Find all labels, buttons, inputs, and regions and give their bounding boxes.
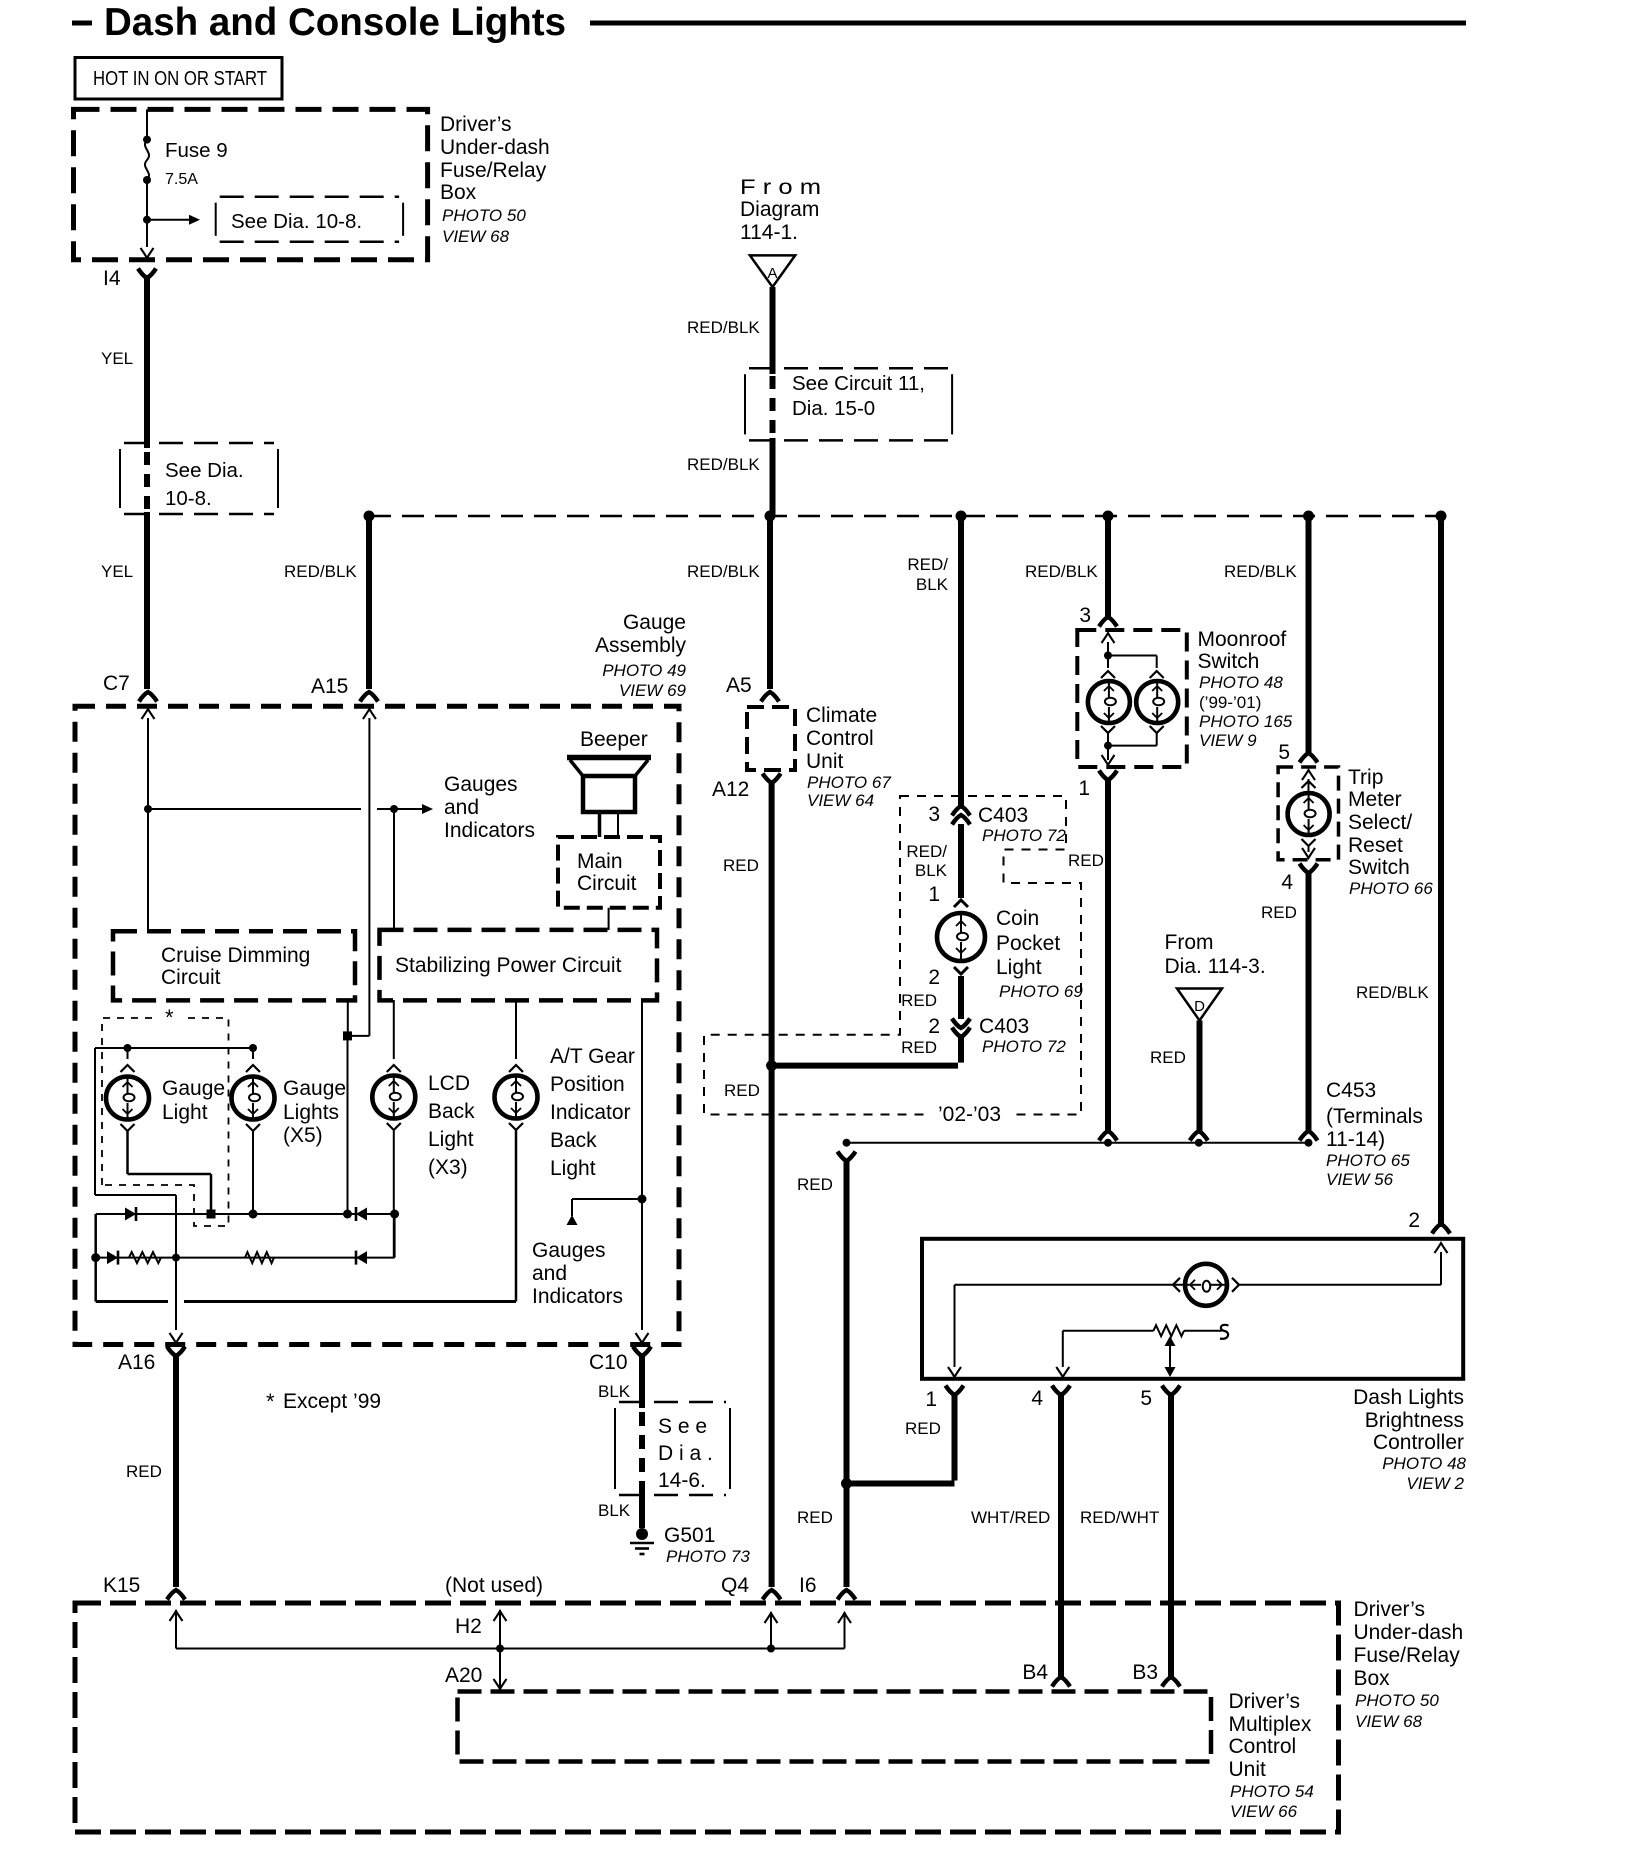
Gauge Assembly box, dashed xyxy=(75,706,679,1344)
See Dia. 14-6. reference box xyxy=(614,1408,616,1489)
lamp moonroof right xyxy=(1136,681,1178,723)
wire row2 right up to row1 xyxy=(394,1214,396,1258)
svg-text:VIEW 9: VIEW 9 xyxy=(1199,731,1257,750)
wire tap to gauges arrow xyxy=(572,1198,642,1200)
svg-text:RED: RED xyxy=(126,1462,162,1481)
svg-text:Brightness: Brightness xyxy=(1365,1409,1464,1432)
wire tap to gauges arrow xyxy=(148,808,361,810)
svg-text:(Terminals: (Terminals xyxy=(1326,1105,1423,1128)
wire YEL (to C7) xyxy=(144,512,150,689)
svg-text:RED/BLK: RED/BLK xyxy=(687,318,760,337)
svg-text:Gauge: Gauge xyxy=(162,1077,225,1100)
svg-text:14-6.: 14-6. xyxy=(658,1469,706,1492)
wire stabilizing to LCD back light xyxy=(393,1000,395,1059)
svg-text:*: * xyxy=(165,1005,174,1030)
pin C7 xyxy=(139,692,157,702)
svg-text:A/T Gear: A/T Gear xyxy=(550,1045,635,1068)
pin 1 controller xyxy=(946,1386,964,1396)
wire tap down to stabilizing circuit xyxy=(393,809,395,930)
svg-text:YEL: YEL xyxy=(101,349,133,368)
svg-text:Gauge: Gauge xyxy=(283,1077,346,1100)
diode D1 xyxy=(125,1208,136,1221)
wire H2/A20 link xyxy=(499,1610,501,1689)
wire lamp top rail xyxy=(95,1047,253,1049)
junction row2 left xyxy=(91,1253,100,1262)
svg-text:Dia. 15-0: Dia. 15-0 xyxy=(792,397,875,420)
svg-text:Switch: Switch xyxy=(1198,650,1260,673)
svg-text:PHOTO 54: PHOTO 54 xyxy=(1230,1782,1314,1801)
wire RED/BLK to bus xyxy=(770,438,776,516)
pin A5 xyxy=(761,692,779,702)
svg-text:Back: Back xyxy=(550,1129,597,1152)
wire BLK down xyxy=(639,1356,645,1408)
wire gauge lights down xyxy=(252,1131,254,1214)
svg-text:VIEW 68: VIEW 68 xyxy=(1355,1712,1423,1731)
svg-text:PHOTO 65: PHOTO 65 xyxy=(1326,1151,1410,1170)
enclosure '02-'03 dashed region xyxy=(704,796,1081,1115)
wire dashed through box xyxy=(639,1412,645,1492)
wire RED down xyxy=(958,1037,964,1063)
svg-text:PHOTO 48: PHOTO 48 xyxy=(1382,1454,1466,1473)
wire main circuit to stabilizing xyxy=(608,908,610,930)
junction lamp1 bottom xyxy=(207,1210,216,1219)
svg-text:Under-dash: Under-dash xyxy=(1354,1621,1464,1644)
junction coin-pocket feed xyxy=(766,1060,777,1071)
wire dashed through box xyxy=(144,452,150,512)
svg-text:PHOTO 66: PHOTO 66 xyxy=(1349,879,1433,898)
svg-text:See Dia.: See Dia. xyxy=(165,459,244,482)
svg-text:Back: Back xyxy=(428,1100,475,1123)
connector triangle A xyxy=(750,255,795,287)
lamp coin pocket light xyxy=(937,913,985,961)
wire to gauges+indicators arrow xyxy=(394,808,424,810)
svg-text:RED/: RED/ xyxy=(907,555,948,574)
svg-text:1: 1 xyxy=(928,883,940,906)
wire LCD lamp down to diode rows xyxy=(393,1130,395,1258)
svg-text:YEL: YEL xyxy=(101,562,133,581)
svg-text:Diagram: Diagram xyxy=(740,198,819,221)
svg-text:Gauge: Gauge xyxy=(623,611,686,634)
wire RED/BLK to moonroof switch xyxy=(1105,516,1111,617)
svg-text:(Not used): (Not used) xyxy=(445,1574,543,1597)
pin 5 trip meter xyxy=(1300,753,1318,763)
pin 4 controller xyxy=(1052,1386,1070,1396)
node C7-gauges tap xyxy=(144,805,152,813)
svg-text:A15: A15 xyxy=(311,675,348,698)
svg-text:Dash and Console Lights: Dash and Console Lights xyxy=(104,1,566,44)
svg-text:(X3): (X3) xyxy=(428,1156,468,1179)
svg-text:Lights: Lights xyxy=(283,1101,339,1124)
wire to internal lamp xyxy=(1238,1284,1441,1286)
wire RED/BLK to C403 xyxy=(958,516,964,806)
bus node trip xyxy=(1303,511,1314,522)
svg-text:LCD: LCD xyxy=(428,1072,470,1095)
svg-text:’02-’03: ’02-’03 xyxy=(938,1103,1001,1126)
bus node moonroof xyxy=(1103,511,1114,522)
wire RED moonroof to C453 xyxy=(1105,780,1111,1131)
pin C10 xyxy=(633,1347,651,1357)
wire RED to A12 junction xyxy=(772,1063,958,1069)
svg-text:I6: I6 xyxy=(799,1574,817,1597)
svg-text:PHOTO 48: PHOTO 48 xyxy=(1199,673,1283,692)
svg-text:(X5): (X5) xyxy=(283,1124,323,1147)
dashed power bus xyxy=(369,515,1441,518)
svg-text:Control: Control xyxy=(1229,1735,1297,1758)
svg-text:BLK: BLK xyxy=(915,861,948,880)
wiper terminal 5 xyxy=(1169,1343,1171,1370)
node Q4 xyxy=(767,1645,775,1653)
pin A16 xyxy=(167,1347,185,1357)
lamp gauge lights (X5) xyxy=(232,1077,275,1120)
lamp LCD back light (X3) xyxy=(372,1076,415,1119)
svg-text:4: 4 xyxy=(1281,871,1293,894)
svg-text:Circuit: Circuit xyxy=(577,872,637,895)
svg-text:Position: Position xyxy=(550,1073,625,1096)
wire to I4 xyxy=(146,220,148,247)
svg-text:2: 2 xyxy=(928,966,940,989)
Moonroof Switch box, dashed xyxy=(1077,630,1187,767)
wire K15 stub xyxy=(175,1610,177,1649)
Trip Meter Select/Reset Switch box, dashed xyxy=(1278,767,1338,860)
svg-text:Under-dash: Under-dash xyxy=(440,136,550,159)
See Dia. 10-8. reference box 2 xyxy=(119,449,121,508)
svg-text:Fuse/Relay: Fuse/Relay xyxy=(1354,1644,1461,1667)
asterisk (Except 99) box, dashed xyxy=(102,1018,229,1226)
wire rail left down xyxy=(94,1048,96,1195)
svg-text:C10: C10 xyxy=(589,1351,628,1374)
svg-text:7.5A: 7.5A xyxy=(165,171,198,188)
wire I6 stub xyxy=(844,1612,846,1649)
svg-text:Main: Main xyxy=(577,850,623,873)
svg-text:Indicators: Indicators xyxy=(532,1285,623,1308)
svg-text:Trip: Trip xyxy=(1348,766,1383,789)
svg-text:Cruise Dimming: Cruise Dimming xyxy=(161,944,310,967)
svg-text:RED: RED xyxy=(1068,851,1104,870)
pin A15 xyxy=(360,692,378,702)
node moonroof split xyxy=(1104,652,1112,660)
svg-text:RED/: RED/ xyxy=(906,842,947,861)
svg-text:*: * xyxy=(266,1389,275,1414)
pin 3 moonroof xyxy=(1099,617,1117,627)
svg-text:B3: B3 xyxy=(1132,1661,1158,1684)
svg-text:RED/BLK: RED/BLK xyxy=(1356,983,1429,1002)
pin 2 controller xyxy=(1432,1224,1450,1234)
svg-text:VIEW 2: VIEW 2 xyxy=(1406,1474,1464,1493)
svg-text:Fuse/Relay: Fuse/Relay xyxy=(440,159,547,182)
wire BLK to ground xyxy=(639,1492,645,1528)
svg-text:See Dia. 10-8.: See Dia. 10-8. xyxy=(231,210,362,233)
svg-text:PHOTO 50: PHOTO 50 xyxy=(442,206,526,225)
wire into fuse xyxy=(146,109,148,139)
svg-text:RED: RED xyxy=(724,1081,760,1100)
svg-text:A16: A16 xyxy=(118,1351,155,1374)
wire RED C453 to I6 xyxy=(844,1161,850,1587)
wire bottom rail left xyxy=(96,1300,168,1303)
svg-text:Dash Lights: Dash Lights xyxy=(1353,1386,1464,1409)
wire RED/BLK from triangle A xyxy=(770,287,776,374)
pin Q4 xyxy=(763,1590,781,1600)
svg-text:A: A xyxy=(767,265,777,282)
svg-text:BLK: BLK xyxy=(598,1382,631,1401)
connector triangle D xyxy=(1177,989,1222,1021)
wire stabilizing to C10 xyxy=(641,1000,643,1330)
junction lamp2 bottom xyxy=(249,1210,258,1219)
Main Circuit box, dashed xyxy=(558,837,660,908)
resistor R2 xyxy=(245,1252,274,1263)
svg-text:RED: RED xyxy=(797,1175,833,1194)
svg-text:A5: A5 xyxy=(726,674,752,697)
svg-text:Driver’s: Driver’s xyxy=(1354,1598,1426,1621)
bus node coin xyxy=(956,511,967,522)
svg-text:5: 5 xyxy=(1140,1387,1152,1410)
svg-text:RED/BLK: RED/BLK xyxy=(1224,562,1297,581)
wire RED trip meter to C453 xyxy=(1306,873,1312,1131)
svg-text:From: From xyxy=(1165,931,1214,954)
wire YEL (I4 to See Dia 10-8) xyxy=(144,278,150,448)
wire lamp to terminal 1 xyxy=(955,1284,1187,1286)
svg-text:VIEW 64: VIEW 64 xyxy=(807,791,874,810)
potentiometer xyxy=(1063,1330,1154,1332)
Driver's Multiplex Control Unit box, dashed xyxy=(458,1692,1212,1762)
connector ends at C453 xyxy=(1099,1131,1117,1141)
node gauges arrow tap xyxy=(390,805,398,813)
Dash Lights Brightness Controller box xyxy=(922,1239,1463,1379)
node moonroof join xyxy=(1104,742,1112,750)
svg-text:PHOTO 165: PHOTO 165 xyxy=(1199,712,1293,731)
wire to gauge lights x5 xyxy=(252,1048,254,1059)
beeper lead 1 xyxy=(598,812,602,837)
pin 1 moonroof xyxy=(1099,771,1117,781)
wire fuse box internal bus xyxy=(176,1648,845,1650)
wire RED/BLK to A5 xyxy=(767,516,773,689)
wire pot to terminal 4 xyxy=(1062,1331,1064,1367)
wire row1 left down xyxy=(94,1214,97,1302)
svg-text:RED: RED xyxy=(901,991,937,1010)
wire RED from triangle D xyxy=(1197,1021,1203,1132)
svg-text:Moonroof: Moonroof xyxy=(1198,628,1287,651)
wire RED to I6 junction xyxy=(849,1481,955,1487)
svg-text:BLK: BLK xyxy=(916,575,949,594)
svg-text:C403: C403 xyxy=(978,804,1028,827)
lamp gauge light xyxy=(106,1077,149,1120)
svg-text:PHOTO 67: PHOTO 67 xyxy=(807,773,891,792)
Driver's under-dash fuse/relay box (bottom), dashed xyxy=(75,1603,1339,1832)
wire cruise dimming output xyxy=(347,1000,349,1036)
svg-text:RED/WHT: RED/WHT xyxy=(1080,1508,1159,1527)
junction A15 branch xyxy=(343,1210,352,1219)
bus node A15 xyxy=(364,511,375,522)
svg-text:Gauges: Gauges xyxy=(532,1239,606,1262)
svg-text:G501: G501 xyxy=(664,1524,715,1547)
connector C403 pin 3 xyxy=(952,806,970,816)
svg-text:VIEW 68: VIEW 68 xyxy=(442,227,510,246)
Cruise Dimming Circuit box, dashed xyxy=(113,931,355,1000)
svg-text:D: D xyxy=(1194,998,1205,1015)
bus node controller xyxy=(1436,511,1447,522)
pin B4 xyxy=(1052,1677,1070,1687)
wire C7 internal to cruise dimming xyxy=(147,718,149,931)
svg-text:S e e: S e e xyxy=(658,1415,707,1438)
svg-text:Reset: Reset xyxy=(1348,834,1403,857)
wire RED/BLK C403 to coin lamp xyxy=(958,824,964,898)
svg-text:Light: Light xyxy=(550,1157,596,1180)
ground G501 xyxy=(636,1528,648,1540)
wire RED/BLK to trip meter switch xyxy=(1306,516,1312,753)
svg-text:PHOTO 73: PHOTO 73 xyxy=(666,1547,750,1566)
svg-text:Select/: Select/ xyxy=(1348,811,1412,834)
wire rail jog xyxy=(95,1194,176,1196)
wire fuse to branch xyxy=(146,180,148,220)
svg-text:WHT/RED: WHT/RED xyxy=(971,1508,1050,1527)
svg-text:1: 1 xyxy=(925,1388,937,1411)
svg-text:Climate: Climate xyxy=(806,704,877,727)
pin 4 trip meter xyxy=(1300,864,1318,874)
svg-text:Light: Light xyxy=(428,1128,474,1151)
wire stabilizing to A/T lamp xyxy=(515,1000,517,1059)
svg-text:Meter: Meter xyxy=(1348,788,1402,811)
pin I4 xyxy=(138,269,156,279)
svg-text:Driver’s: Driver’s xyxy=(440,113,512,136)
wire diode row 2 xyxy=(96,1257,395,1259)
pin 5 controller xyxy=(1162,1386,1180,1396)
svg-text:Multiplex: Multiplex xyxy=(1229,1713,1312,1736)
svg-text:I4: I4 xyxy=(103,267,121,290)
HOT IN ON OR START box xyxy=(75,58,282,100)
svg-text:HOT IN ON OR START: HOT IN ON OR START xyxy=(93,68,267,90)
svg-text:RED: RED xyxy=(1261,903,1297,922)
svg-text:VIEW 56: VIEW 56 xyxy=(1326,1170,1394,1189)
svg-text:5: 5 xyxy=(1278,741,1290,764)
svg-text:PHOTO 69: PHOTO 69 xyxy=(999,982,1083,1001)
svg-text:Box: Box xyxy=(440,181,477,204)
svg-text:PHOTO 49: PHOTO 49 xyxy=(602,661,686,680)
resistor R1 xyxy=(129,1252,161,1263)
wire diode row 1 xyxy=(96,1213,395,1215)
svg-text:PHOTO 72: PHOTO 72 xyxy=(982,1037,1066,1056)
svg-text:Control: Control xyxy=(806,727,874,750)
svg-text:Switch: Switch xyxy=(1348,856,1410,879)
wire WHT/RED to B4 xyxy=(1058,1395,1064,1677)
svg-text:H2: H2 xyxy=(455,1615,482,1638)
connector C403 pin 2 xyxy=(952,1019,970,1029)
svg-text:C403: C403 xyxy=(979,1015,1029,1038)
pin K15 xyxy=(167,1590,185,1600)
svg-text:Gauges: Gauges xyxy=(444,773,518,796)
wire A15 internal down xyxy=(368,718,370,1036)
svg-text:F r o m: F r o m xyxy=(740,176,821,199)
wire RED terminal1 down xyxy=(952,1395,958,1481)
svg-text:C7: C7 xyxy=(103,672,130,695)
wire A15 jog left xyxy=(348,1035,370,1037)
svg-text:RED: RED xyxy=(797,1508,833,1527)
wire Q4 stub xyxy=(770,1612,772,1649)
junction cruise/A15 xyxy=(343,1031,352,1040)
svg-text:See Circuit 11,: See Circuit 11, xyxy=(792,372,925,395)
svg-text:K15: K15 xyxy=(103,1574,140,1597)
svg-text:Pocket: Pocket xyxy=(996,932,1060,955)
fuse top node xyxy=(143,136,151,144)
diode D4 xyxy=(356,1251,367,1264)
wire junction down to diode row xyxy=(347,1036,349,1214)
svg-text:Indicator: Indicator xyxy=(550,1101,631,1124)
svg-text:10-8.: 10-8. xyxy=(165,487,212,510)
svg-text:4: 4 xyxy=(1031,1387,1043,1410)
branch wire to See Dia 10-8 xyxy=(147,219,189,221)
pin C453 end / wire to I6 xyxy=(838,1152,856,1162)
node A16-row2 tap xyxy=(172,1254,180,1262)
svg-text:RED/BLK: RED/BLK xyxy=(687,562,760,581)
See Dia. 10-8. reference box xyxy=(215,203,217,236)
bus node A5 xyxy=(765,511,776,522)
lamp moonroof left xyxy=(1088,681,1130,723)
svg-text:3: 3 xyxy=(928,803,940,826)
svg-text:Driver’s: Driver’s xyxy=(1229,1690,1301,1713)
node gauges indicator tap xyxy=(638,1195,647,1204)
svg-text:Box: Box xyxy=(1354,1667,1391,1690)
Climate Control Unit box, dashed xyxy=(747,707,795,770)
wire RED coin lamp to C403 xyxy=(958,976,964,1019)
wire moonroof internal top xyxy=(1107,642,1109,668)
svg-text:RED: RED xyxy=(1150,1048,1186,1067)
svg-text:RED: RED xyxy=(905,1419,941,1438)
wire A/T lamp down to bottom rail xyxy=(515,1130,518,1302)
svg-text:Q4: Q4 xyxy=(721,1574,749,1597)
wire RED/BLK to brightness controller pin 2 xyxy=(1438,516,1444,1224)
svg-text:Light: Light xyxy=(162,1101,208,1124)
svg-text:RED/BLK: RED/BLK xyxy=(284,562,357,581)
node H2/A20 xyxy=(496,1645,504,1653)
wire RED/BLK to A15 xyxy=(366,516,372,689)
wire to gauge light xyxy=(127,1048,129,1059)
wire gauge light down xyxy=(126,1131,129,1174)
Stabilizing Power Circuit box, dashed xyxy=(380,930,658,1001)
pin B3 xyxy=(1162,1677,1180,1687)
svg-text:and: and xyxy=(532,1262,567,1285)
svg-text:1: 1 xyxy=(1078,777,1090,800)
svg-text:D i a .: D i a . xyxy=(658,1442,713,1465)
fuse F9 7.5A xyxy=(145,140,149,180)
svg-text:Indicators: Indicators xyxy=(444,819,535,842)
svg-text:2: 2 xyxy=(928,1015,940,1038)
svg-text:Controller: Controller xyxy=(1373,1431,1464,1454)
svg-text:and: and xyxy=(444,796,479,819)
svg-text:Assembly: Assembly xyxy=(595,634,687,657)
diode D2 xyxy=(356,1208,367,1221)
lamp brightness controller internal xyxy=(1185,1264,1227,1306)
See Circuit 11 Dia 15-0 reference box xyxy=(744,374,746,434)
wire dashed through box xyxy=(770,376,776,438)
svg-text:Unit: Unit xyxy=(1229,1758,1267,1781)
svg-text:Fuse 9: Fuse 9 xyxy=(165,139,228,162)
pin A12 xyxy=(763,774,781,784)
svg-text:Except ’99: Except ’99 xyxy=(283,1390,381,1413)
wire bottom rail right xyxy=(184,1300,516,1303)
wire controller internal pin2 xyxy=(1440,1252,1442,1285)
svg-text:Dia. 114-3.: Dia. 114-3. xyxy=(1165,955,1266,978)
svg-text:C453: C453 xyxy=(1326,1079,1376,1102)
wire RED A12 to Q4 xyxy=(769,783,775,1587)
svg-text:RED/BLK: RED/BLK xyxy=(687,455,760,474)
svg-text:(’99-’01): (’99-’01) xyxy=(1199,693,1261,712)
svg-text:Circuit: Circuit xyxy=(161,966,221,989)
junction controller-1 feed xyxy=(841,1478,852,1489)
svg-text:VIEW 66: VIEW 66 xyxy=(1230,1802,1298,1821)
svg-text:RED/BLK: RED/BLK xyxy=(1025,562,1098,581)
wire RED A16 to K15 xyxy=(173,1356,179,1587)
svg-text:11-14): 11-14) xyxy=(1326,1128,1385,1151)
pin I6 xyxy=(838,1590,856,1600)
svg-text:A20: A20 xyxy=(445,1664,482,1687)
